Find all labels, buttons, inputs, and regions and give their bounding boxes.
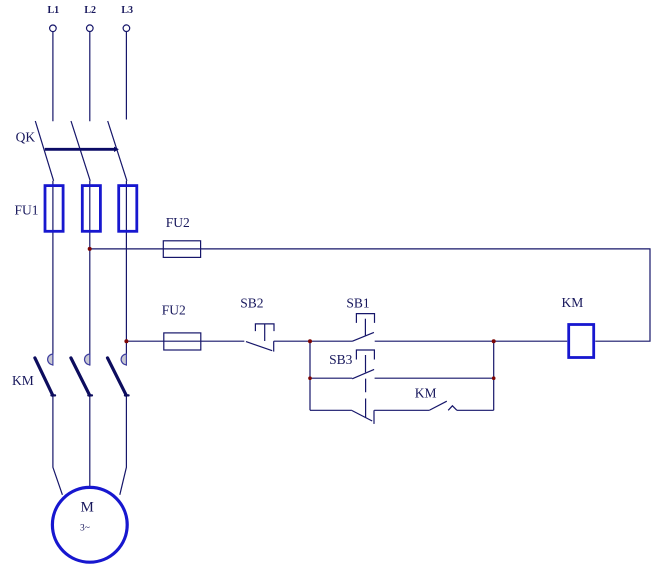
- svg-text:3~: 3~: [80, 524, 90, 534]
- svg-text:L1: L1: [48, 5, 60, 16]
- svg-text:FU2: FU2: [162, 303, 186, 318]
- svg-text:M: M: [81, 499, 94, 515]
- svg-text:SB3: SB3: [329, 352, 353, 367]
- svg-text:FU1: FU1: [15, 203, 39, 218]
- svg-text:QK: QK: [16, 130, 36, 145]
- svg-text:FU2: FU2: [166, 215, 190, 230]
- svg-text:KM: KM: [415, 385, 437, 400]
- svg-text:KM: KM: [562, 295, 584, 310]
- svg-text:SB1: SB1: [346, 295, 369, 310]
- svg-text:SB2: SB2: [240, 296, 263, 311]
- svg-text:L2: L2: [84, 5, 96, 16]
- svg-text:L3: L3: [121, 5, 133, 16]
- svg-text:KM: KM: [12, 373, 34, 388]
